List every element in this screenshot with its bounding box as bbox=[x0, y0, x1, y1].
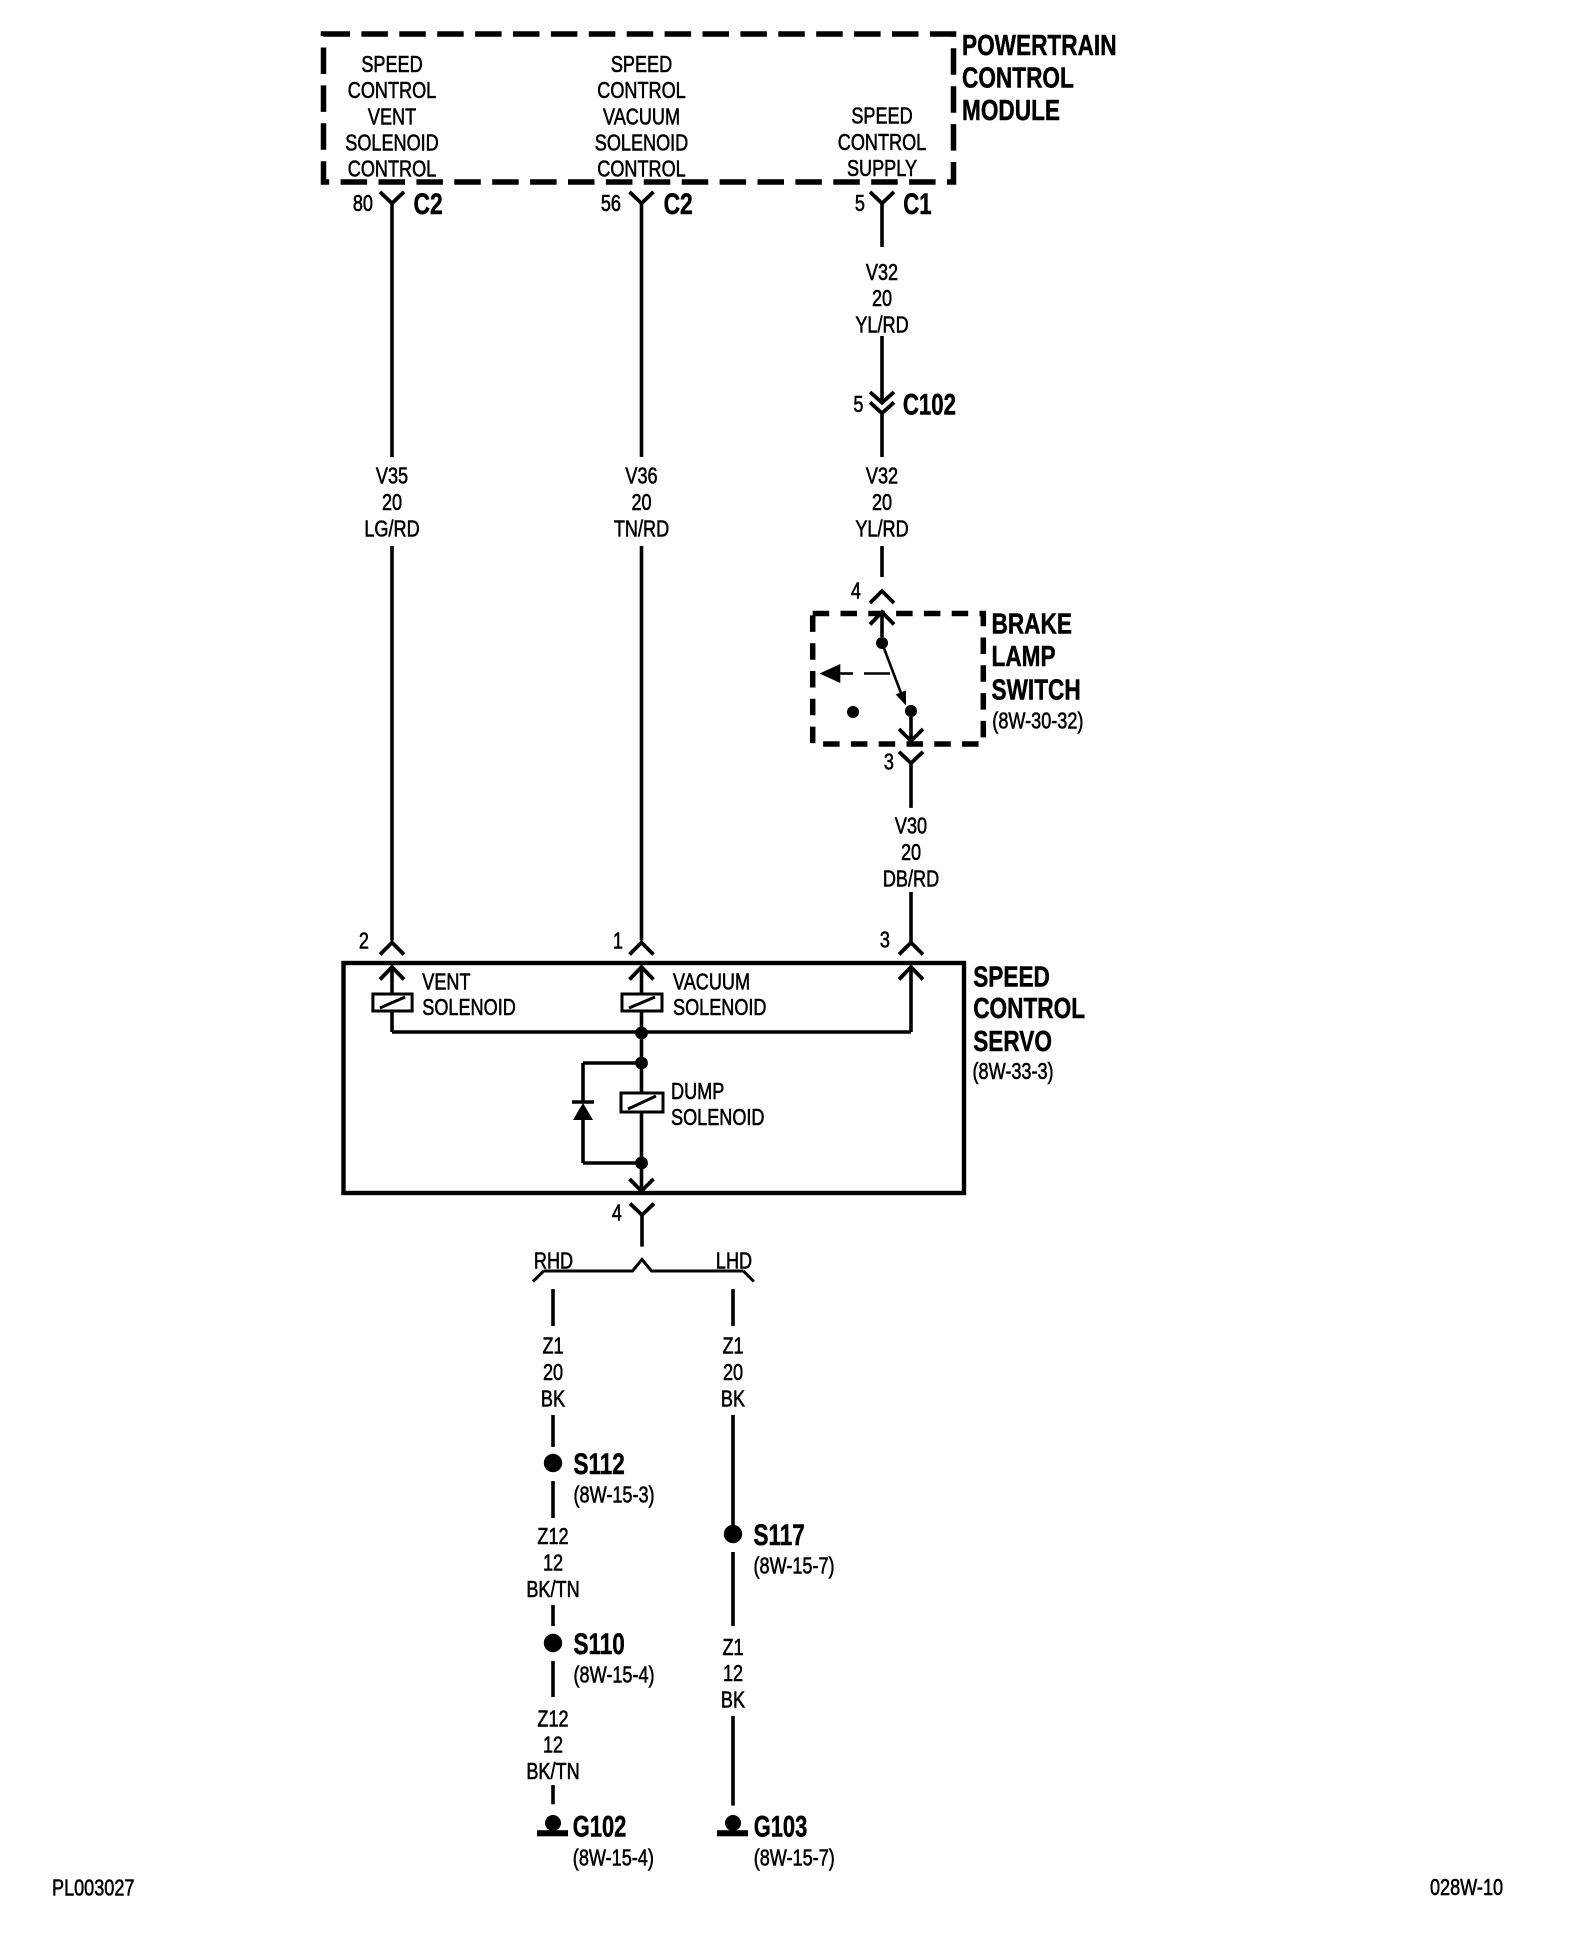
svg-text:CONTROL: CONTROL bbox=[962, 61, 1074, 94]
svg-text:20: 20 bbox=[723, 1360, 743, 1386]
svg-text:TN/RD: TN/RD bbox=[614, 516, 669, 542]
svg-text:(8W-15-4): (8W-15-4) bbox=[574, 1662, 655, 1688]
svg-text:SPEED: SPEED bbox=[361, 52, 422, 78]
svg-text:G103: G103 bbox=[754, 1809, 808, 1843]
svg-text:G102: G102 bbox=[573, 1809, 627, 1843]
svg-text:SOLENOID: SOLENOID bbox=[422, 995, 515, 1021]
svg-text:LAMP: LAMP bbox=[992, 639, 1056, 672]
svg-text:VENT: VENT bbox=[422, 970, 471, 996]
svg-text:20: 20 bbox=[631, 490, 651, 516]
svg-text:C2: C2 bbox=[414, 187, 443, 221]
svg-text:20: 20 bbox=[872, 490, 892, 516]
svg-text:CONTROL: CONTROL bbox=[348, 157, 436, 183]
svg-text:5: 5 bbox=[853, 392, 863, 418]
svg-text:POWERTRAIN: POWERTRAIN bbox=[962, 28, 1117, 61]
svg-text:C1: C1 bbox=[903, 187, 931, 221]
svg-text:SOLENOID: SOLENOID bbox=[595, 130, 688, 156]
svg-text:PL003027: PL003027 bbox=[52, 1875, 134, 1901]
svg-text:VENT: VENT bbox=[368, 104, 417, 130]
svg-text:CONTROL: CONTROL bbox=[348, 78, 436, 104]
svg-text:20: 20 bbox=[872, 286, 892, 312]
svg-text:SOLENOID: SOLENOID bbox=[671, 1105, 764, 1131]
svg-text:(8W-33-3): (8W-33-3) bbox=[973, 1059, 1054, 1085]
svg-text:VACUUM: VACUUM bbox=[603, 104, 680, 130]
svg-text:BK: BK bbox=[541, 1386, 565, 1412]
svg-text:Z1: Z1 bbox=[722, 1333, 743, 1359]
svg-text:V32: V32 bbox=[866, 260, 898, 286]
svg-text:SUPPLY: SUPPLY bbox=[847, 156, 917, 182]
svg-text:CONTROL: CONTROL bbox=[973, 991, 1085, 1024]
svg-text:SPEED: SPEED bbox=[611, 52, 672, 78]
svg-text:12: 12 bbox=[543, 1551, 563, 1577]
svg-text:DUMP: DUMP bbox=[671, 1079, 724, 1105]
svg-text:BK: BK bbox=[721, 1386, 745, 1412]
svg-text:3: 3 bbox=[884, 749, 894, 775]
svg-text:(8W-30-32): (8W-30-32) bbox=[992, 708, 1083, 734]
svg-text:1: 1 bbox=[613, 928, 623, 954]
svg-text:Z12: Z12 bbox=[537, 1524, 568, 1550]
svg-text:(8W-15-7): (8W-15-7) bbox=[754, 1553, 835, 1579]
svg-text:V36: V36 bbox=[625, 463, 657, 489]
svg-text:SOLENOID: SOLENOID bbox=[673, 995, 766, 1021]
svg-text:80: 80 bbox=[353, 191, 373, 217]
svg-text:C102: C102 bbox=[903, 387, 956, 421]
svg-text:S110: S110 bbox=[574, 1627, 625, 1661]
svg-text:(8W-15-3): (8W-15-3) bbox=[574, 1482, 655, 1508]
svg-text:SOLENOID: SOLENOID bbox=[345, 130, 438, 156]
svg-text:V35: V35 bbox=[376, 463, 408, 489]
svg-text:S117: S117 bbox=[754, 1518, 805, 1552]
svg-text:2: 2 bbox=[359, 928, 369, 954]
svg-text:Z12: Z12 bbox=[537, 1706, 568, 1732]
svg-text:12: 12 bbox=[543, 1733, 563, 1759]
svg-text:V30: V30 bbox=[895, 813, 927, 839]
svg-text:V32: V32 bbox=[866, 463, 898, 489]
svg-text:SPEED: SPEED bbox=[851, 104, 912, 130]
svg-text:12: 12 bbox=[723, 1661, 743, 1687]
svg-text:S112: S112 bbox=[574, 1447, 625, 1481]
svg-text:4: 4 bbox=[851, 578, 861, 604]
svg-text:(8W-15-4): (8W-15-4) bbox=[573, 1845, 654, 1871]
svg-text:DB/RD: DB/RD bbox=[883, 866, 939, 892]
svg-text:YL/RD: YL/RD bbox=[855, 516, 908, 542]
svg-text:CONTROL: CONTROL bbox=[597, 78, 685, 104]
svg-text:(8W-15-7): (8W-15-7) bbox=[754, 1845, 835, 1871]
svg-text:20: 20 bbox=[382, 490, 402, 516]
svg-text:BK/TN: BK/TN bbox=[526, 1577, 579, 1603]
svg-text:CONTROL: CONTROL bbox=[838, 130, 926, 156]
svg-text:LG/RD: LG/RD bbox=[364, 516, 419, 542]
svg-text:BK: BK bbox=[721, 1688, 745, 1714]
svg-text:BK/TN: BK/TN bbox=[526, 1759, 579, 1785]
svg-text:20: 20 bbox=[901, 840, 921, 866]
svg-text:4: 4 bbox=[612, 1201, 622, 1227]
svg-text:BRAKE: BRAKE bbox=[992, 607, 1072, 640]
svg-text:3: 3 bbox=[880, 928, 890, 954]
svg-text:SPEED: SPEED bbox=[973, 960, 1050, 993]
svg-text:5: 5 bbox=[855, 191, 865, 217]
svg-text:Z1: Z1 bbox=[542, 1333, 563, 1359]
svg-text:MODULE: MODULE bbox=[962, 93, 1060, 126]
svg-text:SWITCH: SWITCH bbox=[992, 673, 1081, 706]
svg-text:20: 20 bbox=[543, 1360, 563, 1386]
svg-text:C2: C2 bbox=[664, 187, 693, 221]
svg-text:LHD: LHD bbox=[716, 1248, 752, 1274]
svg-text:YL/RD: YL/RD bbox=[855, 313, 908, 339]
svg-text:CONTROL: CONTROL bbox=[597, 157, 685, 183]
svg-text:VACUUM: VACUUM bbox=[673, 970, 750, 996]
svg-text:028W-10: 028W-10 bbox=[1430, 1875, 1503, 1901]
svg-text:56: 56 bbox=[601, 191, 621, 217]
svg-text:Z1: Z1 bbox=[722, 1635, 743, 1661]
svg-text:RHD: RHD bbox=[534, 1248, 573, 1274]
svg-text:SERVO: SERVO bbox=[973, 1024, 1052, 1057]
